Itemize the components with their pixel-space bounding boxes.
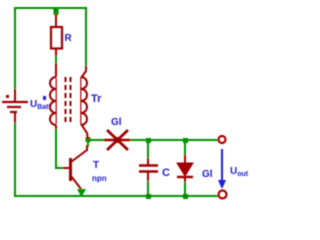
- terminal output plus: [219, 136, 226, 143]
- svg-text:Uout: Uout: [230, 166, 249, 178]
- battery plus mark: [6, 95, 9, 98]
- wire left side upper: [14, 7, 16, 91]
- lamp Gl1 center dot: [115, 137, 121, 143]
- wire diode2 top drop: [184, 140, 186, 156]
- transistor T collector lead: [86, 145, 88, 151]
- node junction dot at capacitor bottom: [146, 194, 151, 199]
- voltage arrow Uout head: [218, 180, 226, 189]
- resistor R lead bottom: [55, 48, 57, 56]
- node top junction dot: [54, 7, 59, 15]
- transistor T emitter diagonal: [71, 176, 81, 189]
- transformer primary winding: [50, 77, 56, 125]
- voltage arrow Uout: [221, 149, 223, 182]
- wire top rail: [15, 7, 86, 9]
- svg-text:Gl: Gl: [202, 169, 213, 180]
- wire output top rail left of diode: [88, 139, 107, 141]
- transformer core line right: [70, 77, 72, 125]
- node junction dot at diode2 bottom: [183, 194, 188, 199]
- transformer secondary lead top: [81, 66, 86, 78]
- svg-text:UBatt: UBatt: [30, 99, 52, 111]
- lamp Gl1 horizontal bar: [104, 139, 130, 142]
- diode Gl2 cathode bar: [177, 176, 193, 179]
- transformer core line left: [65, 77, 67, 125]
- lamp Gl1 diagonal stroke 2: [107, 130, 128, 150]
- diode Gl2 lead top: [184, 155, 186, 163]
- svg-text:Tr: Tr: [91, 93, 102, 105]
- wire left side lower: [14, 122, 16, 197]
- battery lead top: [14, 89, 16, 101]
- svg-text:Gl: Gl: [111, 117, 122, 128]
- svg-text:T: T: [93, 160, 99, 171]
- capacitor C plate bottom: [139, 170, 158, 172]
- terminal output minus: [219, 191, 227, 199]
- node junction dot at diode2 top: [183, 138, 188, 143]
- transformer primary lead bottom: [55, 125, 57, 129]
- wire right vertical from top rail: [85, 7, 87, 67]
- node junction dot at capacitor top: [146, 138, 151, 143]
- transistor T base lead: [63, 167, 69, 169]
- wire capacitor bottom drop: [147, 180, 149, 196]
- transistor T base bar: [69, 158, 72, 181]
- transistor T emitter arrow: [77, 189, 86, 197]
- transformer secondary lead bottom: [81, 124, 88, 140]
- wire resistor to primary: [55, 54, 57, 64]
- wire bottom rail: [14, 195, 218, 197]
- diode Gl2 lead bottom: [184, 177, 186, 182]
- svg-text:R: R: [65, 33, 73, 44]
- node secondary output junction dot: [86, 137, 91, 142]
- svg-text:C: C: [162, 167, 170, 179]
- wire diode2 bottom drop: [184, 181, 186, 196]
- capacitor C lead bottom: [147, 172, 149, 181]
- battery lead bottom: [14, 112, 16, 123]
- lamp Gl1 diagonal stroke 1: [107, 130, 128, 150]
- battery plate 1 long: [2, 101, 28, 103]
- transformer secondary winding spine: [80, 78, 82, 124]
- resistor R lead top: [55, 14, 57, 27]
- wire capacitor top drop: [147, 140, 149, 159]
- capacitor C lead top: [147, 158, 149, 165]
- battery plate 3 short: [10, 111, 17, 113]
- capacitor C plate top: [139, 164, 158, 166]
- transistor T collector diagonal: [71, 150, 87, 162]
- wire primary bottom to base: [56, 128, 64, 168]
- wire secondary bottom junction stub: [87, 140, 89, 147]
- wire resistor top stub: [55, 8, 57, 15]
- resistor R body: [51, 27, 62, 49]
- transformer polarity dot: [43, 96, 46, 100]
- wire output top rail right of diode: [128, 139, 218, 141]
- transformer primary lead top: [55, 63, 57, 77]
- battery plate 2 medium: [7, 106, 21, 108]
- transformer secondary winding: [81, 77, 87, 125]
- transformer primary winding spine: [55, 78, 57, 124]
- diode Gl2 triangle: [177, 163, 193, 176]
- svg-text:npn: npn: [92, 174, 107, 183]
